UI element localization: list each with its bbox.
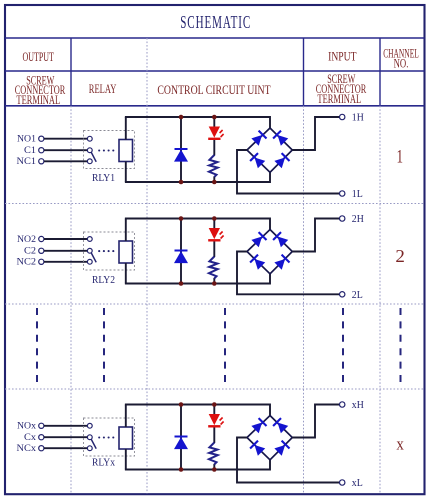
svg-text:C2: C2 (24, 246, 36, 257)
wire LED branch top (213, 405, 215, 416)
wire top rail (125, 117, 270, 128)
continuation dashed line col x=104 (103, 308, 105, 386)
dashed column divider x=380 (379, 106, 381, 494)
svg-text:RLY2: RLY2 (92, 275, 115, 286)
resistor zigzag (209, 155, 218, 177)
terminal 1H (340, 114, 345, 119)
dashed column divider x=147 (146, 38, 148, 494)
terminal C1 (39, 148, 44, 153)
svg-text:CONTROL CIRCUIT UINT: CONTROL CIRCUIT UINT (157, 82, 270, 97)
terminal NO2 (39, 236, 44, 241)
relay RLY2 dashed enclosure (84, 232, 135, 270)
bridge diode top-left (251, 232, 266, 247)
relay coil (119, 427, 133, 449)
wire coil bottom (125, 263, 127, 284)
wire top rail (125, 219, 270, 230)
bridge diode top-right (273, 131, 288, 146)
relay coil (119, 140, 133, 162)
wire bridge left corner to xL (237, 438, 340, 483)
flyback diode (cathode bar) (175, 148, 188, 150)
svg-text:RLYx: RLYx (92, 458, 116, 469)
svg-text:2H: 2H (352, 213, 364, 225)
relay actuation dotted link (98, 250, 100, 252)
wire bridge right corner to 2H (292, 219, 339, 252)
svg-text:OUTPUT: OUTPUT (22, 50, 54, 64)
svg-text:C1: C1 (24, 145, 36, 156)
wire coil top (125, 219, 127, 242)
continuation dashed line col x=343 (342, 308, 344, 386)
bridge rectifier diamond (247, 416, 292, 460)
terminal Cx (39, 435, 44, 440)
wire coil bottom (125, 449, 127, 470)
relay actuation dotted link (98, 149, 100, 151)
LED (cathode bar) (208, 425, 220, 427)
header row separator (5, 70, 425, 72)
svg-text:TERMINAL: TERMINAL (16, 92, 60, 107)
wire bridge right corner to xH (292, 405, 339, 438)
svg-text:RLY1: RLY1 (92, 173, 115, 184)
svg-text:xL: xL (352, 477, 363, 489)
wire C2 to relay (44, 250, 87, 252)
terminal NC2 (39, 259, 44, 264)
terminal 2L (340, 292, 345, 297)
wire diode branch (180, 219, 182, 284)
relay switch arm (91, 439, 96, 449)
column divider control/input (header) (303, 38, 305, 106)
bridge diode bottom-right (274, 255, 289, 270)
junction top diode (179, 115, 184, 120)
continuation dashed line col x=400.5 (400, 308, 402, 386)
svg-text:TERMINAL: TERMINAL (317, 91, 361, 106)
bridge diode bottom-right (274, 153, 289, 168)
wire resistor to bottom rail (213, 278, 215, 284)
wire LED branch top (213, 117, 215, 128)
LED emission arrows (220, 418, 223, 421)
wire NOx to relay (44, 425, 87, 427)
terminal NC1 (39, 159, 44, 164)
continuation dashed line col x=37 (36, 308, 38, 386)
wire bottom rail (125, 172, 270, 182)
flyback diode (cathode bar) (175, 250, 188, 252)
junction top LED (212, 115, 217, 120)
dashed row separator continuation/channel x (5, 388, 425, 390)
svg-text:1L: 1L (352, 188, 363, 200)
continuation dashed line col x=225 (224, 308, 226, 386)
column divider input/channel (header) (379, 38, 381, 106)
relay contact pins (87, 423, 92, 428)
svg-text:Cx: Cx (24, 432, 36, 443)
wire LED to resistor (213, 426, 215, 443)
wire NO2 to relay (44, 238, 87, 240)
svg-text:NO1: NO1 (17, 134, 36, 145)
resistor zigzag (209, 257, 218, 279)
dashed column divider x=71 (70, 106, 72, 494)
bridge diode bottom-right (274, 441, 289, 456)
wire bottom rail (125, 274, 270, 284)
wire NO1 to relay (44, 138, 87, 140)
dashed row separator channel 2/continuation (5, 303, 425, 305)
svg-text:NC2: NC2 (17, 257, 37, 268)
dashed row separator channel 1/2 (5, 203, 425, 205)
svg-text:SCHEMATIC: SCHEMATIC (180, 12, 251, 32)
wire LED branch top (213, 219, 215, 230)
LED (cathode bar) (208, 239, 220, 241)
relay actuation dotted link (98, 436, 100, 438)
junction bottom diode (179, 180, 184, 185)
bridge diode bottom-left (250, 441, 265, 456)
terminal 2H (340, 216, 345, 221)
wire NCx to relay (44, 447, 87, 449)
svg-text:1: 1 (397, 147, 404, 167)
LED (triangle) (209, 414, 220, 425)
bridge rectifier diamond (247, 128, 292, 172)
relay RLYx dashed enclosure (84, 418, 135, 456)
wire LED to resistor (213, 240, 215, 257)
column divider output/relay (header) (70, 38, 72, 106)
wire C1 to relay (44, 149, 87, 151)
junction top LED (212, 402, 217, 407)
LED emission arrows (220, 232, 223, 235)
wire NC1 to relay (44, 160, 87, 162)
junction top diode (179, 402, 184, 407)
bridge diode top-left (251, 131, 266, 146)
wire bridge right corner to 1H (292, 117, 339, 150)
relay contact pins (87, 136, 92, 141)
relay switch arm (91, 152, 96, 162)
relay switch arm (91, 253, 96, 262)
terminal NCx (39, 446, 44, 451)
wire NC2 to relay (44, 261, 87, 263)
title row separator (5, 37, 425, 39)
bridge diode top-right (273, 418, 288, 433)
terminal 1L (340, 191, 345, 196)
junction bottom diode (179, 467, 184, 472)
wire coil top (125, 117, 127, 140)
terminal NOx (39, 423, 44, 428)
bridge diode bottom-left (250, 255, 265, 270)
bridge rectifier diamond (247, 230, 292, 274)
flyback diode (triangle) (174, 150, 188, 162)
svg-text:2: 2 (395, 246, 405, 266)
bridge diode top-right (273, 232, 288, 247)
junction bottom diode (179, 281, 184, 286)
svg-text:NO.: NO. (394, 56, 409, 70)
terminal C2 (39, 248, 44, 253)
header bottom separator (5, 105, 425, 107)
bridge diode top-left (251, 418, 266, 433)
LED (cathode bar) (208, 138, 220, 140)
svg-text:NCx: NCx (17, 443, 37, 454)
resistor zigzag (209, 443, 218, 465)
relay contact pins (87, 237, 92, 242)
terminal NO1 (39, 136, 44, 141)
wire coil bottom (125, 162, 127, 183)
wire diode branch (180, 405, 182, 470)
wire bridge left corner to 2L (237, 252, 340, 295)
relay RLY1 dashed enclosure (84, 131, 135, 169)
svg-text:2L: 2L (352, 289, 363, 301)
wire Cx to relay (44, 436, 87, 438)
flyback diode (triangle) (174, 251, 188, 263)
junction top diode (179, 216, 184, 221)
LED (triangle) (209, 127, 220, 138)
wire diode branch (180, 117, 182, 182)
svg-text:NOx: NOx (17, 421, 36, 432)
wire bottom rail (125, 460, 270, 470)
svg-text:NC1: NC1 (17, 156, 37, 167)
svg-text:INPUT: INPUT (328, 49, 356, 63)
wire coil top (125, 405, 127, 428)
flyback diode (cathode bar) (175, 436, 188, 438)
junction bottom resistor (212, 281, 217, 286)
svg-text:RELAY: RELAY (89, 81, 117, 96)
junction top LED (212, 216, 217, 221)
svg-text:xH: xH (352, 399, 364, 411)
relay coil (119, 241, 133, 263)
flyback diode (triangle) (174, 437, 188, 449)
junction bottom resistor (212, 180, 217, 185)
wire resistor to bottom rail (213, 464, 215, 470)
bridge diode bottom-left (250, 153, 265, 168)
terminal xH (340, 402, 345, 407)
wire LED to resistor (213, 139, 215, 156)
terminal xL (340, 480, 345, 485)
LED (triangle) (209, 228, 220, 239)
wire top rail (125, 405, 270, 416)
wire bridge left corner to 1L (237, 150, 340, 194)
junction bottom resistor (212, 467, 217, 472)
wire resistor to bottom rail (213, 177, 215, 183)
svg-text:x: x (396, 434, 404, 453)
svg-text:1H: 1H (352, 112, 364, 124)
svg-text:NO2: NO2 (17, 234, 36, 245)
LED emission arrows (220, 130, 223, 133)
dashed column divider x=303.5 (303, 106, 305, 494)
